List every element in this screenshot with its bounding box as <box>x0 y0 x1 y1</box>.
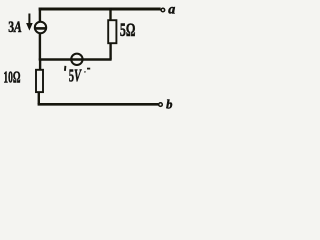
wire 10-ohm top stub <box>39 60 41 70</box>
wire current source to middle junction <box>39 34 41 61</box>
wire bottom rail to terminal b <box>38 103 159 106</box>
resistor 10-ohm body <box>36 70 43 92</box>
current source bar <box>35 27 46 30</box>
wire left branch upper (top rail down to current source) <box>39 8 41 22</box>
wire 5-ohm top stub <box>109 9 111 20</box>
wire 10-ohm bottom stub <box>38 93 40 105</box>
terminal b <box>159 103 163 107</box>
current direction arrow for 3A <box>27 14 32 30</box>
voltage source U=5V circle <box>71 54 82 65</box>
polarity plus tick (left of 5V) <box>64 66 67 71</box>
svg-text:a: a <box>168 3 175 18</box>
svg-text:5Ω: 5Ω <box>120 21 136 41</box>
resistor 5-ohm body <box>108 20 116 43</box>
wire 5-ohm bottom stub <box>109 44 111 60</box>
wire middle (junction to 5-ohm stub, through voltage source) <box>39 58 112 61</box>
current source I=3A circle <box>35 22 46 33</box>
svg-text:10Ω: 10Ω <box>3 69 20 88</box>
svg-text:b: b <box>166 97 172 111</box>
svg-text:3A: 3A <box>8 19 22 36</box>
polarity minus dash (right of 5V) <box>87 68 90 70</box>
terminal a <box>161 8 165 12</box>
small hook mark after 5V <box>84 71 86 73</box>
wire top rail to terminal a <box>39 7 161 10</box>
svg-text:5V: 5V <box>69 67 82 86</box>
